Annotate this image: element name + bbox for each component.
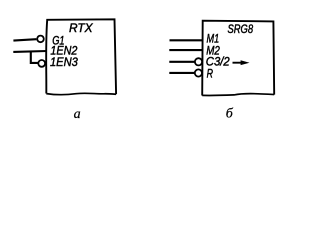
- svg-text:б: б: [226, 107, 234, 122]
- IC body U1 (RTX transceiver outline): [46, 19, 116, 94]
- inversion bubble on R: [195, 69, 202, 76]
- svg-text:SRG8: SRG8: [228, 23, 254, 36]
- IC body U2 (SRG8 shift register outline): [202, 21, 274, 96]
- svg-text:1EN3: 1EN3: [50, 55, 78, 69]
- wire: M1 input: [170, 39, 203, 41]
- wire: R input: [169, 72, 195, 74]
- wire: C3/2 input: [169, 61, 195, 63]
- svg-text:RTX: RTX: [69, 21, 93, 35]
- wire: 1EN2 input: [13, 50, 47, 53]
- inversion bubble on C3/2: [195, 58, 202, 65]
- inversion bubble on 1EN3: [38, 60, 45, 67]
- shift-right arrow after C3/2: [233, 60, 250, 65]
- wire: M2 input: [169, 49, 202, 51]
- wire: branch down to 1EN3: [31, 52, 38, 63]
- svg-text:R: R: [207, 67, 214, 81]
- wire: G1 input: [13, 39, 36, 40]
- inversion bubble on G1: [37, 36, 44, 43]
- svg-text:а: а: [74, 107, 81, 122]
